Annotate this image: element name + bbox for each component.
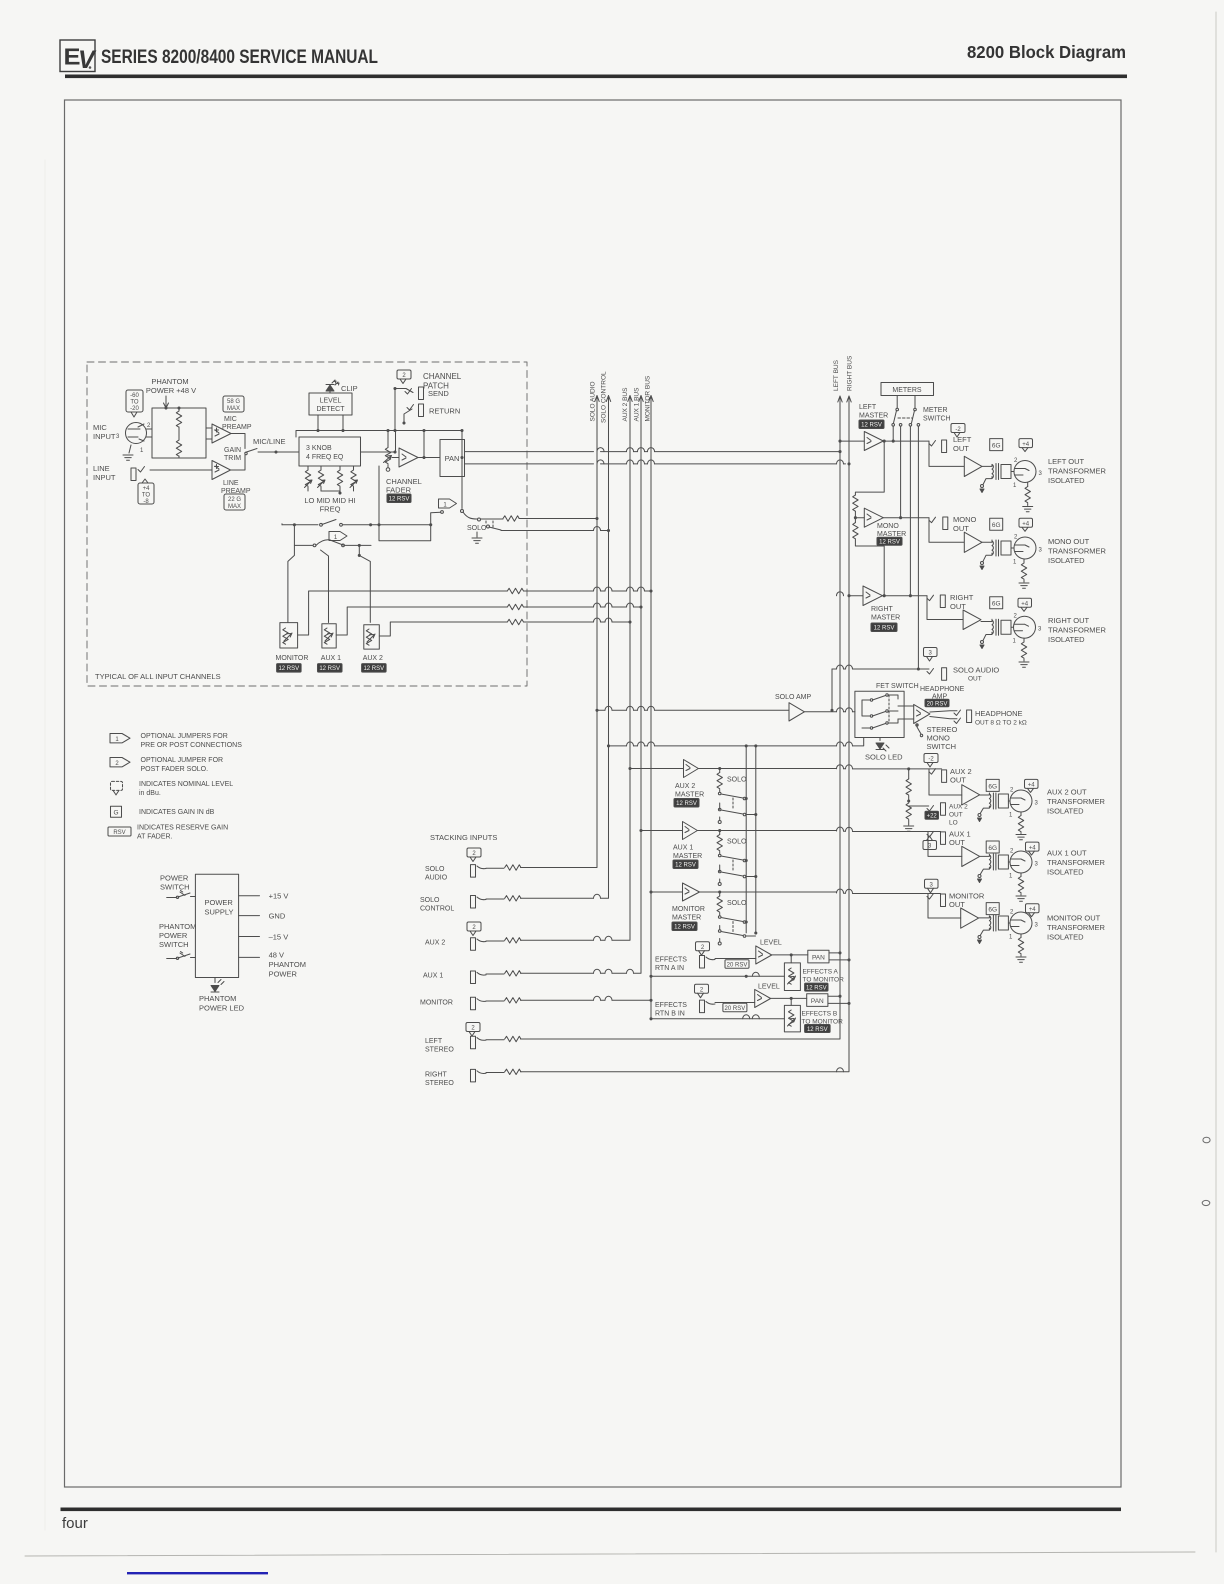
nominal bubble +4 aux1 [1026,842,1040,855]
monitor send pot [280,623,298,648]
gain box 6G aux1 [986,841,999,853]
wire to aux1 line amp [928,832,962,856]
svg-text:20 RSV: 20 RSV [927,701,948,707]
svg-text:LEFT OUT: LEFT OUT [1048,457,1085,466]
svg-text:OUT: OUT [949,900,965,909]
svg-text:EFFECTS: EFFECTS [655,1002,687,1009]
jack solo control stacking [471,896,476,909]
wire right bus to right master [849,595,863,597]
svg-text:POWER +48 V: POWER +48 V [146,386,196,395]
gain box 6G mono [990,518,1003,530]
resistor aux2 xlr shield [1020,812,1022,816]
gain box 6G aux2 [986,779,999,791]
svg-text:6G: 6G [992,601,1001,608]
svg-text:12 RSV: 12 RSV [861,423,882,429]
svg-text:AUX 1 OUT: AUX 1 OUT [1047,849,1087,858]
wire mic preamp out [231,434,245,449]
svg-text:EFFECTS: EFFECTS [655,957,687,964]
svg-text:SWITCH: SWITCH [160,883,190,892]
svg-text:POWER LED: POWER LED [199,1004,245,1013]
nominal bubble +4 right [1018,598,1032,611]
phantom power LED D3 [214,978,216,983]
aux 2 bus [628,396,632,939]
channel patch return switch [404,409,412,423]
svg-text:POST FADER SOLO.: POST FADER SOLO. [141,766,209,773]
svg-text:MASTER: MASTER [675,792,704,799]
svg-text:LEFT BUS: LEFT BUS [833,359,840,391]
wire pre-fader row [282,524,431,526]
jumper 2 pointer legend [110,758,130,768]
svg-text:SWITCH: SWITCH [927,742,957,751]
tag 12 RSV aux1 [318,664,343,673]
ground right xlr [1019,662,1029,667]
line input jack J2 [131,468,136,481]
svg-text:12 RSV: 12 RSV [806,985,827,991]
svg-text:SERIES 8200/8400 SERVICE MANUA: SERIES 8200/8400 SERVICE MANUAL [101,47,378,68]
op-amp U14 monitor master [683,883,700,901]
svg-text:22 G: 22 G [228,497,241,503]
svg-text:6G: 6G [988,783,997,790]
svg-text:MONITOR: MONITOR [672,906,705,913]
MAIN DIAGRAM [87,355,1210,1206]
svg-text:RIGHT: RIGHT [950,593,974,602]
blue mark at bottom [127,1572,268,1574]
svg-text:AUX 2: AUX 2 [425,940,445,947]
nominal level bubble +4 TO -8 [138,479,154,505]
svg-text:LEVEL: LEVEL [320,398,342,405]
solo control bus [606,396,610,897]
wire solo control line to fet [609,738,864,746]
level detect box [309,393,352,415]
svg-text:+15 V: +15 V [269,892,289,901]
svg-text:LINE: LINE [93,464,110,473]
svg-text:12 RSV: 12 RSV [319,666,340,672]
svg-text:SOLO AUDIO: SOLO AUDIO [953,666,999,675]
op-amp U13 aux1 master [683,822,698,840]
wire solo audio out line [832,668,929,670]
wire to line amp left [929,441,964,466]
wire second row [294,525,312,546]
tag 12 RSV aux1 master [673,860,698,869]
wire aux1 send to bus [336,607,507,635]
wire level B to pan B [771,997,807,999]
svg-text:TRIM: TRIM [224,455,241,462]
wire meter taps [893,426,918,669]
mic/line switch S1 [245,449,257,453]
wire solo amp to fet switch [804,711,855,713]
solo gang rail A [745,746,747,933]
svg-text:SOLO: SOLO [727,839,747,846]
phantom resistor network box [152,408,206,458]
svg-text:AUX 2: AUX 2 [675,783,695,790]
XLR J aux2 out [1010,790,1032,812]
svg-text:MIC: MIC [224,416,237,423]
nominal bubble +4 left [1019,439,1033,452]
EQ pot LO [307,466,309,470]
jumper 1 pointer (post solo) [439,499,457,509]
svg-text:MASTER: MASTER [673,853,702,860]
svg-text:TO: TO [142,493,151,499]
svg-text:+4: +4 [143,486,151,492]
svg-text:4 FREQ EQ: 4 FREQ EQ [306,454,344,461]
svg-text:ISOLATED: ISOLATED [1047,807,1084,816]
wire to aux2 line amp [929,769,962,795]
solo LED D2 [879,738,881,741]
svg-text:SOLO LED: SOLO LED [865,753,903,762]
svg-text:TO: TO [130,400,139,406]
wire line jack to line preamp [150,469,212,471]
tag 20 RSV headphone [925,699,949,707]
ground tick below solo switch [476,532,478,537]
svg-text:TO MONITOR: TO MONITOR [803,977,845,984]
svg-text:PHANTOM: PHANTOM [151,377,188,386]
phantom switch S3 [167,954,196,959]
svg-text:RIGHT OUT: RIGHT OUT [1048,616,1090,625]
channel patch return jack [419,404,424,417]
op-amp U1 mic preamp [212,424,231,443]
solo pot aux2 [719,769,721,773]
svg-text:12 RSV: 12 RSV [363,666,384,672]
svg-text:SWITCH: SWITCH [923,416,951,423]
resistor R phantom lower [176,440,181,456]
wire solo control line [501,530,609,532]
svg-text:OPTIONAL JUMPERS FOR: OPTIONAL JUMPERS FOR [141,733,228,740]
transformer T5 aux1 [989,854,1008,870]
EQ pot HI [353,466,355,470]
resistor mono sum top [853,495,858,511]
svg-text:12 RSV: 12 RSV [675,863,696,869]
clip LED D1 [326,380,339,391]
svg-text:SOLO AUDIO: SOLO AUDIO [590,381,597,421]
svg-text:PAN: PAN [812,955,825,962]
svg-text:-20: -20 [130,406,139,412]
svg-text:PRE OR POST CONNECTIONS: PRE OR POST CONNECTIONS [141,742,243,749]
wire solo audio bus to solo amp [597,709,789,711]
tag +22 (aux2 lo) [925,811,939,819]
svg-text:MASTER: MASTER [859,413,888,420]
jumper 3 bubble (monitor out) [925,879,939,893]
svg-text:TRANSFORMER: TRANSFORMER [1048,547,1107,556]
jumper 2 bubble (rtn A) [696,942,710,956]
svg-text:LEVEL: LEVEL [758,984,780,991]
nominal bubble +4 aux2 [1025,779,1039,792]
wire to line amp right [927,596,963,620]
svg-text:SOLO: SOLO [425,866,445,873]
svg-text:LEVEL: LEVEL [760,940,782,947]
svg-text:POWER: POWER [159,931,188,940]
svg-text:PHANTOM: PHANTOM [159,922,196,931]
svg-text:MONITOR BUS: MONITOR BUS [645,375,652,421]
wire monitor send to bus [298,591,508,635]
op-amp U6 mono master [864,508,883,527]
channel patch send switch [406,389,413,393]
jack monitor stacking [471,997,476,1010]
XLR J monitor out [1010,912,1032,934]
svg-text:INPUT: INPUT [93,432,116,441]
svg-text:+4: +4 [1029,907,1037,913]
op-amp U3 channel amp [399,448,418,467]
dashed gang solo [492,521,494,529]
svg-text:four: four [62,1515,88,1532]
wire pan left out to left bus [465,451,841,453]
tag 12 RSV aux2 [362,664,387,673]
transformer T1 left [992,464,1011,480]
svg-text:ISOLATED: ISOLATED [1048,556,1085,565]
wire fet to headphone amp [898,706,914,719]
channel fader pot [387,446,389,448]
op-amp U7 mono line amp [964,532,982,552]
svg-text:INDICATES GAIN IN dB: INDICATES GAIN IN dB [139,809,215,816]
ground aux2 xlr [1016,835,1026,840]
resistor mono xlr shield [1023,559,1025,563]
op-amp U18 aux1 line amp [962,846,980,866]
wire +15V out [239,895,260,897]
svg-text:+4: +4 [1029,845,1037,851]
RSV box legend [108,827,131,836]
solo pot monitor [719,892,721,896]
paper right edge [1215,12,1217,1552]
svg-text:20 RSV: 20 RSV [725,1006,746,1012]
svg-text:SOLO: SOLO [467,525,487,532]
tag 12 RSV left master [859,420,884,429]
jack right stereo stacking [471,1069,476,1082]
svg-text:RETURN: RETURN [429,407,460,416]
mic input ground [129,445,131,453]
resistor mono sum bottom [853,523,858,539]
svg-text:8200 Block Diagram: 8200 Block Diagram [967,42,1126,62]
wire mic pins to network [146,429,152,437]
svg-text:MONO OUT: MONO OUT [1048,537,1090,546]
tag 12 RSV monitor [277,664,302,673]
svg-text:FREQ: FREQ [320,505,341,514]
divider resistor chain aux2 lo [907,767,910,770]
XLR J aux1 out [1010,851,1032,873]
svg-text:LEFT: LEFT [859,404,877,411]
svg-text:RTN A IN: RTN A IN [655,965,684,972]
svg-text:DETECT: DETECT [317,406,346,413]
svg-text:SOLO: SOLO [420,897,440,904]
wire monitor stack [486,1000,504,1002]
channel boundary (dashed) [87,362,527,686]
jumper 3 bubble (aux1 out) [923,836,937,850]
svg-text:MASTER: MASTER [871,615,900,622]
solo pot aux1 [719,831,721,835]
svg-text:INDICATES RESERVE GAIN: INDICATES RESERVE GAIN [137,825,228,832]
wire switch to EQ [258,451,299,453]
nominal bubble +4 monitor [1026,904,1040,917]
svg-text:ISOLATED: ISOLATED [1048,476,1085,485]
primary ground aux1 [978,875,981,878]
svg-text:ISOLATED: ISOLATED [1047,933,1084,942]
svg-text:LEFT: LEFT [953,435,972,444]
svg-text:PAN: PAN [811,998,824,1005]
svg-text:RIGHT: RIGHT [425,1072,448,1079]
svg-text:MIC/LINE: MIC/LINE [253,437,286,446]
EQ pot MID1 [320,466,322,470]
header group [60,40,1127,78]
wire aux 2 stack [486,940,504,942]
svg-text:HEADPHONE: HEADPHONE [975,709,1023,718]
svg-text:CONTROL: CONTROL [420,906,454,913]
svg-text:INDICATES NOMINAL LEVEL: INDICATES NOMINAL LEVEL [139,781,233,788]
wire headphone outs [930,711,957,719]
svg-text:OUT: OUT [950,776,966,785]
svg-text:SOLO: SOLO [727,777,747,784]
EQ block: 3 KNOB 4 FREQ EQ [299,437,361,466]
svg-text:MONO: MONO [877,523,899,530]
svg-text:METER: METER [923,407,948,414]
wire right master out to jack [883,595,928,597]
wire rtn A to level amp [715,958,756,960]
svg-text:SUPPLY: SUPPLY [205,908,234,917]
wire monitor sum line B [651,1018,784,1020]
svg-text:PAN: PAN [445,454,460,463]
jumper -2 bubble (aux2 out) [924,754,938,768]
wire pan B outs to buses [828,996,849,1003]
wire aux2 master out [698,768,941,770]
op-amp U16 level B [755,989,771,1007]
wire clip led to level detect [329,392,331,394]
solo switch monitor [718,916,721,919]
wire level detect taps [296,415,395,437]
svg-text:LINE: LINE [223,480,239,487]
svg-text:INPUT: INPUT [93,473,116,482]
svg-text:OUT 8 Ω TO 2 kΩ: OUT 8 Ω TO 2 kΩ [975,720,1027,727]
tag 12 RSV effects A [805,983,828,991]
ground mono xlr [1019,583,1029,588]
op-amp U12 aux2 master [684,760,699,778]
resistor aux1 xlr shield [1020,873,1022,877]
svg-text:TRANSFORMER: TRANSFORMER [1048,626,1107,635]
svg-text:6G: 6G [992,443,1001,450]
gain bubble 22 G MAX [224,494,245,510]
svg-text:POWER: POWER [160,874,189,883]
transformer T6 monitor [989,915,1008,931]
svg-text:AUX 2 OUT: AUX 2 OUT [1047,788,1087,797]
channel patch send jack [419,387,424,400]
wire aux 1 stack [486,973,504,975]
svg-text:MASTER: MASTER [672,915,701,922]
wire 48V out [239,956,260,958]
op-amp U11 headphone amp [914,704,930,723]
tag 20 RSV rtn A [725,960,749,969]
effects A to monitor pot [784,963,800,991]
pan A box [808,950,829,963]
wire to line amp mono [929,518,964,543]
svg-text:POWER: POWER [269,969,298,978]
svg-text:RIGHT BUS: RIGHT BUS [847,355,854,391]
op-amp U10 solo amp [789,703,804,721]
wire monitor sum line A [651,975,784,977]
svg-text:+4: +4 [1022,442,1030,448]
svg-text:STEREO: STEREO [425,1047,454,1054]
tag 12 RSV monitor master [672,922,697,931]
svg-text:OUT: OUT [968,676,982,683]
svg-text:HEADPHONE: HEADPHONE [920,686,965,693]
reserve gain tag 12 RSV [387,494,411,503]
svg-text:CHANNEL: CHANNEL [423,372,462,381]
wire right master out tap to mono sum [855,539,884,596]
aux 2 out lo jack [909,805,929,807]
wire post-EQ to patch and fader [361,431,396,453]
wire mono out to jack [883,517,929,519]
wire GND out [239,915,260,917]
jack aux 1 stacking [471,971,476,984]
tag 12 RSV mono [877,537,902,545]
svg-text:TRANSFORMER: TRANSFORMER [1047,797,1106,806]
wire solo control stack [486,898,504,900]
op-amp U2 line preamp [212,461,231,480]
wire mono node to amp [855,517,864,519]
svg-text:ISOLATED: ISOLATED [1048,635,1085,644]
jumper 2 bubble (aux 2 stack) [467,922,481,936]
left out jack [942,440,947,453]
wire droppers to send pots [288,545,295,622]
wire pan right out to right bus [465,463,846,465]
aux1 send pot [322,624,336,648]
tag 12 RSV effects B [805,1025,831,1033]
svg-text:MAX: MAX [228,504,241,510]
svg-text:AUX 1: AUX 1 [321,655,341,662]
op-amp U17 aux2 line amp [962,785,980,805]
resistor R phantom upper [176,411,181,427]
svg-text:AT FADER.: AT FADER. [137,834,173,841]
svg-text:AUX 1 BUS: AUX 1 BUS [634,387,641,422]
svg-text:RSV: RSV [113,830,125,836]
phantom feed wire with arrow [164,396,169,408]
wire level A to pan A [772,954,808,956]
wire left bus to left master [840,440,864,442]
jumper 2 pointer (channel patch) [397,370,411,384]
wire left master out tap to mono sum [883,440,886,443]
svg-text:6G: 6G [988,907,997,914]
svg-text:MONITOR: MONITOR [276,655,309,662]
svg-text:PHANTOM: PHANTOM [269,960,306,969]
diagram outer border [65,100,1122,1487]
primary ground monitor [978,936,981,939]
svg-text:G: G [113,810,118,817]
solo control switch [489,527,501,530]
wiper to amp [392,457,399,459]
svg-text:3 KNOB: 3 KNOB [306,445,332,452]
svg-text:METERS: METERS [892,387,922,394]
svg-text:MONO: MONO [953,515,976,524]
svg-text:12 RSV: 12 RSV [874,626,895,632]
power switch S2 [167,893,196,898]
svg-text:PREAMP: PREAMP [222,424,252,431]
solo audio out jack [942,668,947,681]
wire network to mic preamp [206,428,212,439]
svg-text:V: V [78,46,97,74]
svg-text:TRANSFORMER: TRANSFORMER [1047,858,1106,867]
svg-text:58 G: 58 G [227,399,240,405]
power supply box [195,874,238,977]
svg-text:AUX 2 BUS: AUX 2 BUS [622,387,629,422]
primary ground mono [981,562,984,565]
wire aux1 master out [697,831,940,832]
jack left stereo stacking [471,1036,476,1049]
footer group [61,1508,1122,1575]
op-amp U5 left line amp [964,456,982,476]
svg-text:SWITCH: SWITCH [159,940,189,949]
nominal bubble legend [111,781,123,795]
wire line preamp out [231,455,246,470]
ground aux1 xlr [1016,896,1026,901]
svg-text:AUX 2: AUX 2 [949,804,968,811]
op-amp U19 monitor line amp [961,908,979,928]
svg-text:OUT: OUT [953,524,969,533]
svg-text:PHANTOM: PHANTOM [199,994,236,1003]
